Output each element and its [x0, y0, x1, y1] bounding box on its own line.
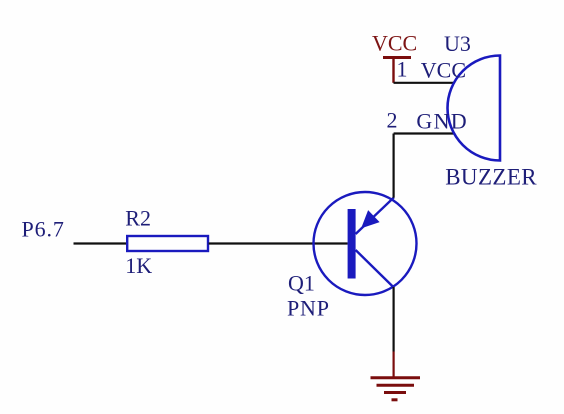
svg-text:VCC: VCC: [421, 57, 466, 82]
svg-text:Q1: Q1: [288, 270, 315, 295]
wire collector down: [393, 287, 395, 352]
svg-text:1K: 1K: [125, 253, 152, 278]
transistor Q1 collector line: [356, 250, 394, 288]
svg-text:1: 1: [397, 57, 408, 82]
svg-text:R2: R2: [125, 205, 151, 230]
resistor R2: [127, 236, 208, 251]
wire to ground (dark red): [393, 352, 395, 378]
ground symbol: [371, 378, 421, 400]
svg-text:VCC: VCC: [372, 31, 417, 56]
buzzer U3 body: [448, 56, 501, 161]
svg-text:P6.7: P6.7: [22, 217, 65, 242]
wire emitter to buzzer pin 2 (vertical): [393, 134, 395, 198]
wire buzzer pin 2 (horizontal): [394, 132, 455, 134]
wire R2 to Q1 base: [209, 242, 348, 244]
transistor Q1 base bar: [348, 209, 356, 279]
VCC power symbol: [383, 58, 411, 83]
svg-text:GND: GND: [416, 108, 468, 133]
wire buzzer pin 1: [394, 82, 455, 84]
svg-text:BUZZER: BUZZER: [445, 165, 537, 190]
svg-text:PNP: PNP: [287, 295, 330, 320]
svg-text:U3: U3: [444, 31, 471, 56]
svg-text:2: 2: [387, 108, 398, 133]
transistor Q1 emitter arrow (PNP): [362, 211, 379, 227]
transistor Q1 body circle: [314, 192, 417, 295]
transistor Q1 emitter line: [356, 198, 394, 235]
wire P6.7 to R2: [74, 242, 127, 244]
